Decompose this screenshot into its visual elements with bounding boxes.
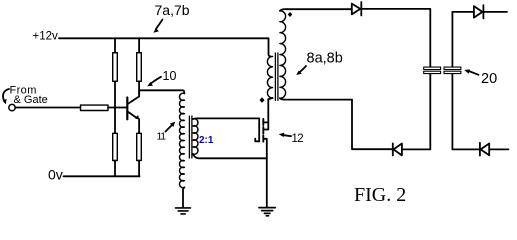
- svg-text:20: 20: [481, 71, 497, 87]
- svg-text:8a,8b: 8a,8b: [307, 51, 343, 67]
- resistor R4 (emitter): [137, 119, 142, 176]
- wire drain up to transformer: [267, 99, 269, 122]
- wire top right output: [452, 11, 474, 13]
- wire 8a,8b leader arrow: [296, 66, 306, 75]
- resistor R2 (collector): [137, 38, 142, 96]
- wire T8 secondary bottom to output: [280, 98, 352, 99]
- node 11 label: [157, 131, 167, 143]
- transformer T11 core: [189, 116, 192, 158]
- node 7a,7b label: [155, 2, 190, 18]
- resistor Rin (base series): [81, 105, 109, 110]
- transformer T11 secondary winding: [193, 119, 198, 155]
- node polarity diamond: [260, 97, 265, 103]
- transistor Q1 (10): [127, 90, 139, 119]
- diode D4 (bottom right, pointing left): [480, 143, 489, 156]
- capacitor C-right (20): [444, 67, 461, 74]
- wire source down to ground: [266, 158, 268, 207]
- wire +12v down to T8 primary: [269, 38, 271, 56]
- wire D1 to left cap rail: [361, 9, 430, 67]
- resistor R3 (lower left bias): [113, 133, 118, 176]
- wire D3 right: [483, 11, 507, 13]
- svg-text:7a,7b: 7a,7b: [155, 2, 190, 18]
- wire 20 leader arrow: [464, 69, 478, 74]
- wire 11 leader arrow: [166, 122, 176, 132]
- wire 7a,7b leader arrow: [153, 20, 162, 33]
- node 20 label: [481, 71, 497, 87]
- transformer T8 secondary winding: [280, 11, 286, 98]
- wire D2 to left rail: [402, 148, 430, 150]
- wire collector to transformer 11: [139, 90, 184, 93]
- node +12v label: [33, 31, 59, 43]
- wire left rail lower: [429, 74, 431, 149]
- capacitor C-left (20): [424, 67, 441, 74]
- node input terminal: [9, 104, 15, 110]
- wire bottom right output: [452, 148, 479, 150]
- transistor Q2 MOSFET (12) gate bar: [255, 118, 259, 141]
- transformer T8 primary winding: [267, 56, 272, 98]
- wire 0v rail: [64, 175, 140, 177]
- wire 12 leader arrow: [279, 133, 291, 137]
- node 10 label: [163, 69, 177, 83]
- wire T8 secondary top hook: [280, 9, 287, 11]
- svg-text:FIG. 2: FIG. 2: [354, 184, 406, 206]
- svg-text:2:1: 2:1: [199, 135, 214, 146]
- ground (under T11): [176, 208, 191, 214]
- wire T11 secondary bottom to source: [193, 154, 267, 158]
- wire input curved arrow: [3, 89, 9, 104]
- wire top output: [287, 8, 352, 10]
- transistor Q2 drain/source taps: [263, 122, 268, 158]
- diode D1 (top): [352, 2, 362, 16]
- wire right rail lower: [451, 74, 453, 150]
- wire T8 primary bottom to drain: [268, 98, 272, 100]
- svg-text:11: 11: [157, 131, 167, 143]
- transistor Q2 channel dashes: [262, 119, 264, 142]
- wire T11 primary to ground: [183, 187, 184, 207]
- svg-text:& Gate: & Gate: [14, 94, 48, 106]
- node 12 label: [292, 133, 304, 145]
- svg-text:+12v: +12v: [33, 31, 59, 43]
- wire bottom-left loop: [352, 100, 393, 150]
- node From & Gate label: [10, 85, 48, 107]
- svg-text:10: 10: [163, 69, 177, 83]
- node 2:1 label: [199, 135, 214, 146]
- transformer T11 primary winding: [179, 93, 184, 187]
- node polarity dot: [288, 12, 293, 17]
- svg-text:0v: 0v: [48, 167, 63, 183]
- wire 10 leader arrow: [147, 77, 161, 86]
- node FIG. 2 caption: [354, 184, 406, 206]
- wire base: [108, 107, 127, 109]
- diode D3 (top right): [474, 5, 484, 18]
- wire +12v rail: [59, 37, 269, 39]
- resistor R1 (upper left bias): [113, 38, 118, 133]
- ground (under Q2 source): [259, 208, 275, 216]
- svg-text:12: 12: [292, 133, 304, 145]
- wire T11 secondary top to gate: [193, 117, 259, 120]
- diode D2 (bottom left, pointing left): [393, 143, 402, 155]
- wire right rail top: [451, 12, 453, 67]
- transformer T8 core: [275, 53, 278, 101]
- wire input to resistor: [15, 107, 80, 109]
- node 8a,8b label: [307, 51, 343, 67]
- node 0v label: [48, 167, 63, 183]
- wire D4 right: [489, 148, 508, 150]
